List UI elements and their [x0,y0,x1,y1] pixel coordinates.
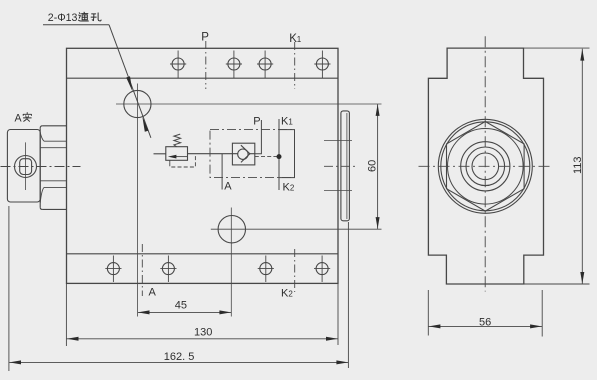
svg-text:60: 60 [367,160,379,172]
relief valve inlet line [154,153,166,155]
hole1 horizontal centerline / 60-dim top extension [116,103,382,105]
svg-text:P: P [253,116,260,128]
K vertical line [278,119,280,190]
dimension 162.5 [9,206,349,371]
hole2 vertical centerline / 45-dim right extension [230,208,232,317]
plug circle [15,156,37,178]
right view horizontal centerline [419,165,551,167]
nut outer circle [438,119,532,213]
glyph an (in A-an label) [23,113,31,122]
60 arrows [376,104,380,116]
main body outline (front view) [67,48,339,283]
svg-text:A: A [15,112,23,124]
hex nut side view [40,126,66,210]
P branch line [255,120,262,154]
check valve seat [241,145,250,162]
dimension 60 [377,104,379,229]
check valve ball [238,149,248,159]
junction dot [277,154,282,159]
hex socket [20,159,32,175]
right view outline [428,48,543,284]
svg-text:130: 130 [194,326,212,338]
bottom flange top line [67,253,339,255]
glyph kong (hole) [91,13,101,21]
side port centerlines near plate [324,140,352,142]
svg-text:2: 2 [290,183,295,192]
svg-text:56: 56 [479,316,491,328]
top flange holes [170,51,331,79]
relief valve spring [174,134,181,147]
bottom flange holes [105,256,330,283]
relief valve internal arrow [176,156,188,158]
svg-text:P: P [201,32,209,44]
check valve to K dashed pilot line [255,156,279,158]
right view vertical centerline [484,36,486,291]
leader line for 2-phi13 label [43,25,151,138]
schematic right solid box (K ports) [279,130,295,178]
hand-drawn CJK glyphs (tong kong, an) [23,12,101,121]
dimension 130 [66,283,338,346]
162.5 arrows [9,360,21,364]
svg-text:A: A [224,181,232,193]
relief valve box [166,147,188,161]
130 arrows [67,337,79,341]
nut hexagon [447,122,525,212]
113 arrows [580,49,584,61]
through hole 2 (phi13) [218,216,245,243]
dimension 45 [138,311,232,313]
K1 centerline (top) [294,42,296,89]
56 arrows [429,324,441,328]
A port horizontal centerline [1,166,81,168]
dimension 113 [524,48,590,284]
through hole 1 (phi13) [124,90,151,117]
check valve box [232,143,254,165]
glyph tong (through) [78,12,88,21]
K2 centerline (bottom) [294,249,296,292]
svg-text:2: 2 [288,289,293,298]
svg-text:1: 1 [297,35,302,44]
svg-text:45: 45 [175,300,187,312]
svg-text:A: A [149,286,157,298]
svg-text:1: 1 [288,118,293,127]
relief valve pilot dashed loop [169,160,171,162]
A branch line [221,154,223,190]
dimension 56 [428,290,542,337]
relief valve internal arrow head [168,155,177,159]
nut chamfer circle [448,129,524,205]
A port plug cap (left) [7,130,40,203]
nut outer ring [441,122,530,211]
45 arrows [138,310,150,314]
right side plate (edge view) [341,111,350,221]
hole1 vertical centerline / 45-dim left extension [137,84,139,317]
leader arrowheads [126,76,148,132]
A centerline (bottom) [141,244,143,296]
hole2 horizontal centerline / 60-dim bottom extension [211,228,382,230]
svg-text:113: 113 [572,156,584,174]
concentric circles [461,142,510,191]
hydraulic schematic: boundary dash-dot box [210,130,295,178]
P centerline (top) [205,41,207,89]
svg-text:162. 5: 162. 5 [164,351,195,363]
top flange bottom line [67,77,339,79]
relief valve outlet line [188,153,238,155]
plug vertical centerline [25,142,27,190]
svg-text:2-Φ13: 2-Φ13 [48,12,78,24]
